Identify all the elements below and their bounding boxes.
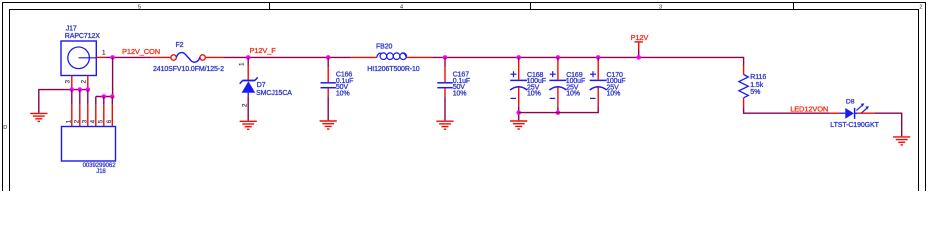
connector J18 pins — [72, 105, 113, 127]
resistor R116 — [739, 57, 748, 107]
J17 pin 2 — [87, 76, 89, 90]
node junction P12V tap — [636, 55, 641, 60]
node junction at J18 pin6 — [110, 94, 115, 99]
wire R116 to LED — [744, 108, 830, 114]
connector J17 body — [61, 41, 96, 76]
node junction D7 — [246, 55, 251, 60]
svg-text:2: 2 — [73, 119, 80, 123]
svg-text:R116: R116 — [750, 74, 766, 81]
svg-text:RAPC712X: RAPC712X — [65, 33, 100, 40]
ground symbol C166 — [320, 121, 337, 129]
node junction at J17 pin1 — [110, 55, 115, 60]
wire P12V FB20 to corner — [432, 56, 744, 58]
wire C167 to ground — [444, 96, 446, 120]
LED D8 — [839, 103, 869, 119]
svg-text:10%: 10% — [336, 90, 350, 97]
svg-text:1.5k: 1.5k — [750, 82, 763, 89]
C170 labels — [606, 72, 625, 98]
svg-text:F2: F2 — [176, 42, 184, 49]
node junction C166 — [326, 55, 331, 60]
wire C168 to ground — [518, 106, 520, 120]
capacitor C168 polarized — [510, 57, 527, 106]
capacitor C169 polarized — [549, 57, 566, 106]
wire stubs to J18 pins 1-6 — [72, 90, 113, 105]
wire C166 to ground — [327, 96, 329, 120]
ground symbol C167 — [436, 121, 453, 129]
svg-text:D: D — [3, 125, 7, 131]
J17 pin 3 — [71, 76, 73, 90]
diode D7 TVS — [240, 57, 258, 96]
node junction C170 — [596, 55, 601, 60]
wire C169 to gnd bus — [557, 106, 559, 112]
svg-text:2410SFV10.0FM/125-2: 2410SFV10.0FM/125-2 — [153, 66, 224, 73]
svg-text:P12V_CON: P12V_CON — [122, 47, 160, 56]
capacitor C166 — [321, 57, 336, 96]
svg-text:5%: 5% — [750, 89, 760, 96]
node junction gnd wire pin2 — [78, 87, 83, 92]
zone divider tick 3 — [793, 2, 795, 10]
connector J18 body — [62, 127, 116, 162]
zone divider tick 2 — [530, 2, 532, 10]
svg-text:1: 1 — [102, 49, 106, 56]
svg-text:D7: D7 — [257, 82, 266, 89]
C169 labels — [566, 72, 585, 98]
node junction C169 — [556, 55, 561, 60]
sheet border inner frame — [10, 10, 919, 192]
power tap P12V — [634, 42, 643, 58]
svg-text:HI1206T500R-10: HI1206T500R-10 — [367, 66, 420, 73]
wire P12V_F fuse to FB20 — [224, 56, 351, 58]
svg-text:3: 3 — [659, 5, 662, 11]
fuse F2 — [152, 53, 224, 63]
node junction gnd wire pin1 — [70, 87, 75, 92]
svg-text:10%: 10% — [607, 91, 621, 98]
svg-text:5: 5 — [138, 5, 141, 11]
C167 labels — [453, 72, 470, 98]
sheet border outer frame — [3, 3, 926, 192]
C166 labels — [336, 72, 353, 98]
svg-text:5: 5 — [97, 119, 104, 123]
node junction gnd wire pin3 — [86, 87, 91, 92]
svg-text:1: 1 — [239, 62, 246, 66]
J18 pin numbers 1-6 — [65, 119, 113, 123]
wire GND from J17 pin3 to ground — [39, 90, 88, 113]
ground symbol C168 — [510, 121, 527, 129]
svg-text:J17: J17 — [66, 26, 77, 33]
svg-text:D8: D8 — [846, 98, 855, 105]
svg-text:2: 2 — [241, 103, 248, 107]
svg-text:6: 6 — [106, 119, 113, 123]
svg-text:4: 4 — [400, 5, 403, 11]
ferrite bead FB20 — [351, 53, 433, 60]
svg-text:FB20: FB20 — [376, 44, 393, 51]
svg-text:1: 1 — [65, 119, 72, 123]
C168 labels — [527, 72, 546, 98]
svg-text:10%: 10% — [453, 90, 467, 97]
node junction C168 — [516, 55, 521, 60]
svg-text:3: 3 — [81, 119, 88, 123]
wire D7 to ground — [247, 96, 249, 120]
node junction C169 gnd — [556, 110, 561, 115]
svg-text:4: 4 — [89, 119, 96, 123]
wire P12V_CON vertical drop to J18 — [96, 57, 113, 96]
node junction at J18 pin5 — [102, 94, 107, 99]
svg-text:P12V: P12V — [631, 33, 649, 42]
svg-text:J18: J18 — [96, 168, 106, 175]
ground symbol right — [893, 137, 910, 145]
svg-text:3: 3 — [64, 79, 71, 83]
wire P12V_CON from J17 pin1 to fuse — [105, 56, 152, 58]
svg-text:P12V_F: P12V_F — [250, 46, 277, 55]
wire C170 bottom to C168 gnd — [519, 106, 599, 112]
node junction C168 gnd — [516, 110, 521, 115]
ground symbol D7 — [240, 121, 257, 129]
svg-text:SMCJ15CA: SMCJ15CA — [256, 90, 292, 97]
svg-text:2: 2 — [80, 79, 87, 83]
J17 pin 1 — [96, 56, 105, 58]
ground symbol left — [30, 113, 47, 121]
zone divider tick 1 — [269, 2, 271, 10]
svg-text:LTST-C190GKT: LTST-C190GKT — [830, 122, 879, 129]
wire D8 to right ground — [858, 112, 874, 114]
svg-text:10%: 10% — [566, 91, 580, 98]
svg-text:2: 2 — [919, 5, 922, 11]
R116 labels — [750, 74, 766, 96]
node junction C167 — [443, 55, 448, 60]
svg-text:10%: 10% — [527, 91, 541, 98]
capacitor C170 polarized — [590, 57, 607, 106]
capacitor C167 — [437, 57, 452, 96]
svg-text:LED12VON: LED12VON — [790, 104, 828, 113]
